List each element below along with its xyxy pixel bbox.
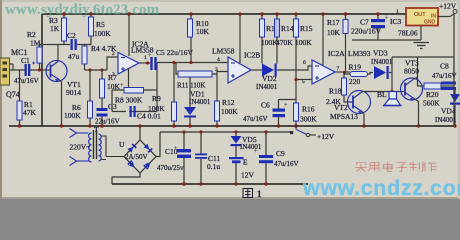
svg-text:47u/16V: 47u/16V (432, 72, 457, 80)
node battery bottom (234, 182, 237, 185)
resistor R9 (172, 63, 177, 127)
wire VT2 collector up (361, 92, 389, 93)
wire VT3 collector (413, 58, 424, 87)
capacitor C6 (273, 100, 286, 127)
svg-text:300K: 300K (300, 115, 317, 124)
svg-text:22u/16V: 22u/16V (95, 118, 120, 126)
capacitor C11 (195, 132, 207, 184)
wire C6 top link (279, 99, 297, 101)
node mic ground (18, 124, 21, 127)
resistor R11 (176, 63, 217, 78)
char dian (383, 162, 392, 172)
svg-text:C1: C1 (21, 56, 30, 65)
wire IC3 gnd pin (420, 26, 422, 41)
capacitor C2 (64, 39, 84, 50)
bridge diode bottom-left (127, 160, 136, 169)
node VD4 ground (453, 124, 456, 127)
wire bridge top to rail (139, 126, 141, 140)
node R9 ground (172, 124, 175, 127)
capacitor C1 (22, 62, 35, 77)
svg-text:220: 220 (349, 77, 361, 86)
svg-text:3: 3 (112, 72, 115, 78)
svg-text:E: E (243, 158, 248, 167)
svg-text:6: 6 (303, 60, 306, 66)
ground symbol IC3 (414, 43, 430, 49)
node IC2B power (238, 12, 241, 15)
capacitor C4 (126, 106, 136, 117)
node R16 ground (294, 124, 297, 127)
wire IC3 ground bus (352, 39, 421, 41)
resistor R16 (294, 100, 299, 126)
resistor R7 (100, 70, 105, 108)
svg-text:47u: 47u (68, 52, 80, 61)
battery E (229, 157, 244, 184)
node R17 top (344, 12, 347, 15)
node base (38, 68, 41, 71)
bridge diode bottom-right (143, 160, 152, 169)
svg-text:IN4001: IN4001 (240, 143, 262, 151)
svg-text:IC2A: IC2A (328, 49, 345, 58)
svg-text:T: T (94, 125, 99, 134)
svg-text:C6: C6 (261, 101, 270, 110)
regulator IC3 box (406, 8, 438, 26)
watermark red CJK 实用电子制作 (hand-drawn strokes) (355, 162, 436, 172)
svg-text:9014: 9014 (66, 88, 81, 97)
svg-text:IN4001: IN4001 (371, 58, 393, 66)
svg-text:220u/16V: 220u/16V (351, 27, 382, 36)
svg-text:100K: 100K (295, 38, 312, 47)
wire feedback box (112, 63, 157, 112)
svg-text:BL: BL (377, 90, 387, 99)
svg-text:R12: R12 (222, 98, 235, 107)
resistor R4 (82, 45, 87, 71)
node VT1 emitter ground (60, 124, 63, 127)
wire bridge bottom elbow to PSU rail (112, 173, 140, 184)
resistor R6 (88, 70, 93, 126)
svg-text:3: 3 (215, 67, 218, 73)
char zhi (410, 162, 423, 172)
resistor R13 (260, 14, 265, 64)
svg-text:5: 5 (302, 79, 305, 85)
wire IC3 out to +12V terminal (438, 14, 454, 127)
svg-text:www.cndzz.com: www.cndzz.com (302, 176, 460, 199)
svg-text:2: 2 (112, 51, 115, 57)
svg-text:C7: C7 (360, 18, 369, 27)
resistor R14 (275, 14, 280, 64)
wire R4 bottom node row (85, 69, 108, 71)
wire bridge plus output riser (156, 132, 160, 157)
wire VT3 emitter to ground (414, 99, 419, 127)
svg-text:U: U (119, 140, 125, 149)
svg-text:R17: R17 (327, 18, 340, 27)
node R7 top (100, 68, 103, 71)
wire VT2 emitter to ground (362, 112, 364, 127)
svg-text:470u/25v: 470u/25v (157, 164, 184, 172)
node switch rail stub (294, 124, 297, 127)
svg-text:47u/16V: 47u/16V (243, 115, 268, 123)
node C9 bottom (264, 182, 267, 185)
wire primary leads 220V (70, 129, 89, 166)
transistor VT1 (46, 61, 67, 83)
node R5 top (89, 12, 92, 15)
node R6 ground (88, 124, 91, 127)
svg-text:IC3: IC3 (390, 17, 402, 26)
wire comparator output node (335, 71, 350, 73)
diode VD4 (450, 90, 460, 126)
resistor R20 (424, 83, 454, 89)
svg-text:GND: GND (424, 20, 436, 26)
resistor R5 (84, 14, 94, 45)
resistor R12 (215, 72, 229, 127)
svg-text:1: 1 (396, 9, 399, 15)
node comparator power (321, 12, 324, 15)
svg-text:1M: 1M (30, 39, 41, 48)
node R13 top (260, 12, 263, 15)
node R14 top (275, 12, 278, 15)
svg-text:10K: 10K (196, 27, 210, 36)
op-amp comparator IC2A LM393 (312, 60, 335, 84)
svg-text:VD3: VD3 (373, 49, 388, 58)
capacitor C8 (441, 82, 456, 95)
svg-text:IN4001: IN4001 (189, 98, 211, 106)
svg-text:12V: 12V (241, 171, 255, 180)
svg-text:100K: 100K (148, 104, 165, 113)
transformer secondary winding (99, 134, 102, 161)
resistor R3 (62, 14, 67, 45)
svg-text:C8: C8 (440, 62, 449, 71)
svg-text:R14: R14 (281, 24, 294, 33)
transformer primary winding (89, 133, 92, 162)
svg-text:1: 1 (257, 189, 262, 199)
wire to inverting input (107, 57, 118, 70)
svg-text:100K: 100K (221, 107, 238, 116)
capacitor C3 (97, 108, 108, 126)
diode VD5 (231, 132, 242, 157)
svg-text:220V~: 220V~ (70, 143, 91, 152)
capacitor C9 (259, 132, 273, 184)
transistor VT3 (401, 78, 423, 101)
svg-text:47u/16V: 47u/16V (14, 77, 39, 85)
wire mic lower lead / R1 column (19, 70, 21, 126)
svg-text:R19: R19 (349, 63, 362, 72)
op-amp IC2B (228, 57, 251, 83)
svg-text:7: 7 (337, 66, 340, 72)
svg-text:100K: 100K (94, 29, 111, 38)
node R10 bottom (189, 61, 192, 64)
resistor R2 (37, 45, 56, 71)
wire VT1 collector up (56, 45, 64, 62)
microphone MC1 (0, 58, 10, 85)
node VT3 emitter ground (417, 124, 420, 127)
svg-text:VD2: VD2 (262, 74, 277, 83)
node output (146, 61, 149, 64)
svg-text:www.sydzdiy.6to23.com: www.sydzdiy.6to23.com (5, 2, 160, 18)
bridge rectifier U outline (124, 140, 156, 173)
capacitor C7 (371, 14, 385, 40)
switch K (290, 130, 316, 137)
svg-text:1K: 1K (50, 24, 60, 33)
diode VD1 (184, 77, 196, 126)
wire feedback tap from plus input (128, 69, 130, 89)
svg-text:+12V: +12V (439, 2, 457, 11)
wire comparator plus input stub (296, 79, 312, 81)
svg-text:+12V: +12V (317, 132, 335, 141)
transistor VT2 (348, 91, 371, 115)
node C7 top (376, 12, 379, 15)
wire left frame vertical (41, 14, 43, 126)
svg-text:Q74: Q74 (6, 90, 20, 99)
node C3 ground (100, 124, 103, 127)
node R10 top (189, 12, 192, 15)
node output (343, 71, 346, 74)
resistor R10 (188, 14, 193, 63)
wire top +V rail (42, 13, 406, 15)
svg-text:C9: C9 (276, 149, 285, 158)
resistor R15 (294, 14, 299, 100)
svg-text:R15: R15 (300, 24, 313, 33)
svg-text:R9: R9 (152, 94, 161, 103)
svg-text:C2: C2 (67, 31, 76, 40)
node C10 top (182, 130, 185, 133)
diode VD3 (374, 57, 392, 92)
svg-text:47u/16V: 47u/16V (274, 160, 299, 168)
svg-text:100K: 100K (64, 111, 81, 120)
svg-text:470K: 470K (276, 38, 293, 47)
svg-text:R16: R16 (302, 105, 315, 114)
bridge diode top-right (143, 144, 152, 153)
wire mic output to C1 (10, 64, 23, 70)
svg-text:IN4001: IN4001 (256, 83, 278, 91)
char yong (368, 163, 379, 171)
wire BL node to VT3 base (397, 91, 404, 93)
node C11 bottom (199, 182, 202, 185)
wire PSU bottom rail (112, 183, 308, 185)
wire top link to C8 column (392, 57, 454, 80)
svg-text:78L06: 78L06 (398, 29, 418, 38)
node C9 top (264, 130, 267, 133)
svg-text:VT2: VT2 (334, 103, 348, 112)
node VD1 ground (188, 124, 191, 127)
svg-text:OUT: OUT (414, 12, 426, 18)
node VD3 to BL (390, 90, 393, 93)
svg-text:LM358: LM358 (212, 47, 235, 56)
speaker BL (383, 92, 402, 106)
bridge diode top-left (127, 143, 136, 152)
op-amp IC2A (118, 53, 139, 75)
resistor R18 (342, 72, 349, 102)
wire comparator power pin (322, 14, 324, 65)
resistor R19 (344, 72, 373, 77)
svg-text:47K: 47K (23, 108, 37, 117)
node R9 top (172, 61, 175, 64)
svg-text:IC2B: IC2B (244, 51, 260, 60)
svg-text:R8 300K: R8 300K (115, 96, 143, 105)
wire PSU plus line (160, 131, 291, 133)
svg-text:4: 4 (217, 57, 220, 63)
terminal +12V (453, 10, 457, 14)
svg-text:MPSA13: MPSA13 (330, 112, 358, 121)
resistor R17 (343, 14, 348, 72)
caption figure 1 glyph (243, 189, 253, 198)
svg-text:10K: 10K (327, 28, 341, 37)
svg-text:R18: R18 (329, 87, 342, 96)
node VD5 top (234, 130, 237, 133)
node bridge top (138, 124, 141, 127)
capacitor C5 (150, 57, 228, 70)
node IC2A power (127, 12, 130, 15)
char zi (396, 163, 407, 172)
wire VT1 emitter down to ground (59, 80, 62, 127)
svg-text:2A/50V: 2A/50V (125, 153, 148, 161)
wire IC2B output (251, 69, 262, 71)
node R15 top (294, 12, 297, 15)
node R12 ground (215, 124, 218, 127)
svg-text:C5 22u/16V: C5 22u/16V (156, 48, 193, 57)
svg-text:LM393: LM393 (348, 49, 371, 58)
capacitor C10 (177, 132, 191, 184)
diode VD2 (262, 64, 312, 77)
char shi (355, 163, 366, 172)
wire IC2A output (139, 62, 150, 64)
resistor R8 (124, 88, 144, 94)
wire C1 to VT1 base (35, 69, 49, 71)
node R6 top (88, 68, 91, 71)
wire IC2B power pin (239, 14, 241, 63)
node R3 top (62, 12, 65, 15)
node divider (294, 78, 297, 81)
svg-text:R11 110K: R11 110K (177, 82, 205, 90)
resistor R1 (17, 101, 22, 120)
wire IC2A power pin (128, 14, 130, 56)
wire secondary leads (102, 136, 125, 160)
svg-text:8050: 8050 (404, 67, 419, 76)
wire ground rail (9, 125, 456, 127)
svg-text:1: 1 (144, 55, 147, 61)
node C11 top (199, 130, 202, 133)
transformer T core (94, 130, 97, 159)
svg-text:R5: R5 (96, 20, 105, 29)
svg-text:0.1u: 0.1u (207, 162, 220, 171)
svg-text:560K: 560K (423, 99, 440, 108)
char zuo (423, 162, 436, 172)
node VT2 emitter ground (362, 124, 365, 127)
node C10 bottom (182, 182, 185, 185)
node C6 ground (277, 124, 280, 127)
